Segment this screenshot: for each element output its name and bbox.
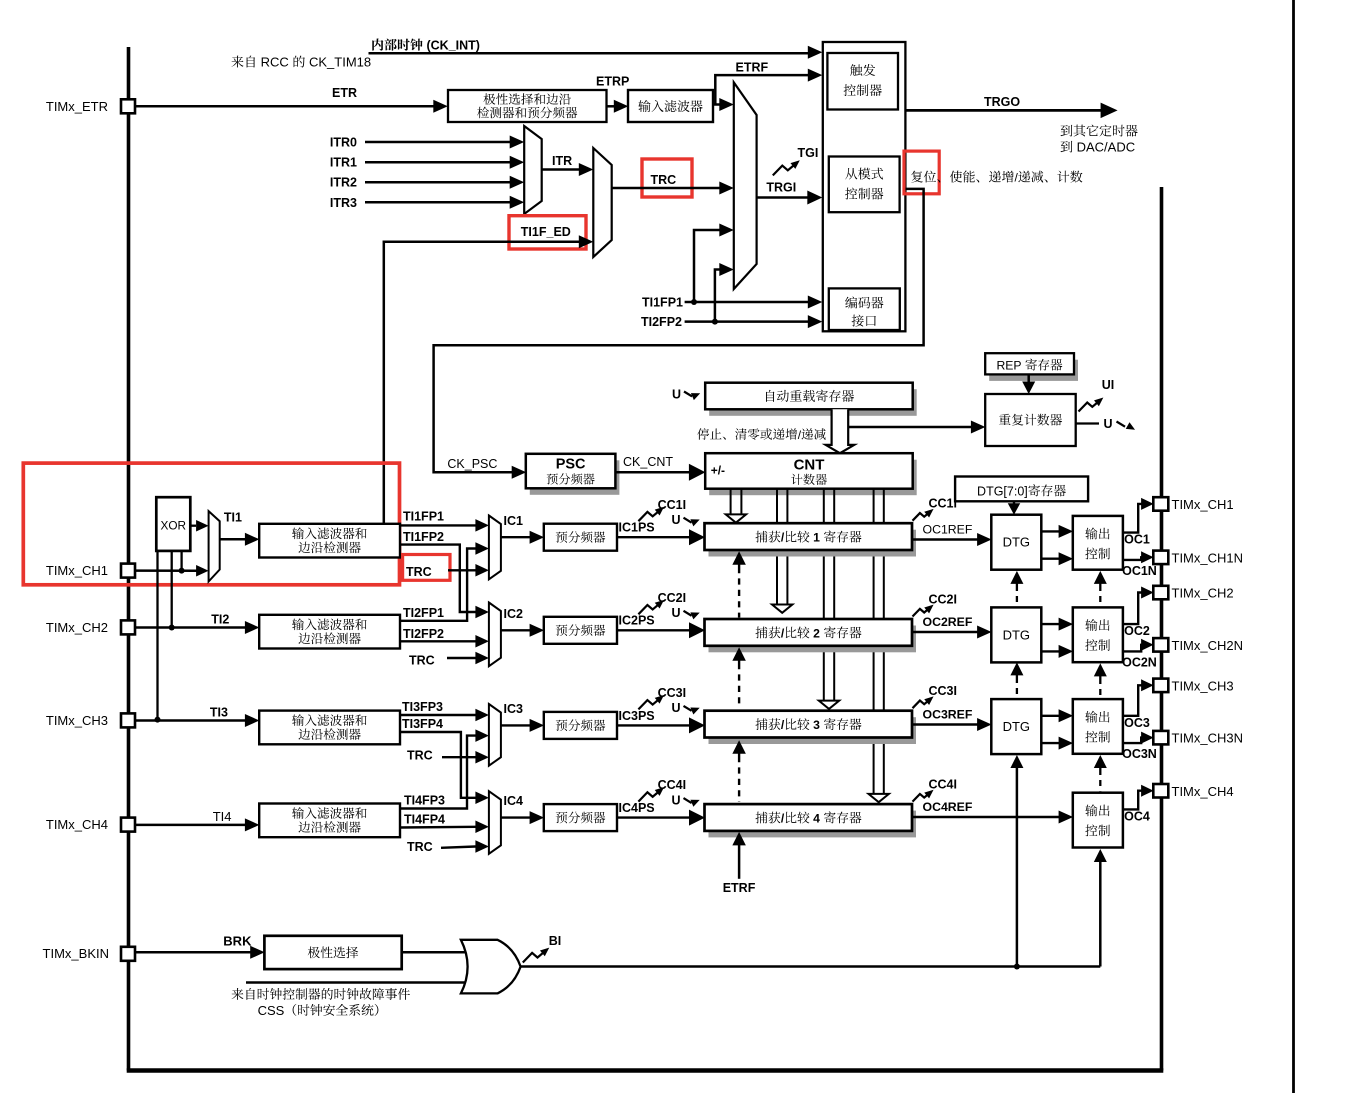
- wire TI4: [135, 818, 259, 831]
- label OC4: [1124, 809, 1150, 823]
- label UI: [1102, 378, 1115, 392]
- label CC2I right: [929, 593, 957, 607]
- label U ch2: [672, 606, 681, 620]
- mux IC1 select: [489, 516, 501, 580]
- mux ITR select: [524, 126, 542, 214]
- label U ch1: [672, 513, 681, 527]
- label ITR3: [330, 196, 357, 210]
- box output control ch1: [1073, 516, 1123, 570]
- mux TI1 select: [209, 511, 220, 581]
- label CC3I right: [929, 684, 957, 698]
- wire U repetition: [1076, 422, 1099, 424]
- box input filter edge detector ch4: [259, 804, 400, 838]
- port TIMx_CH3 label: [46, 713, 108, 728]
- svg-text:TI2FP2: TI2FP2: [641, 315, 682, 329]
- event arrow CC4I right: [913, 790, 934, 802]
- wire CK_INT: [369, 46, 823, 59]
- port TIMx_CH2 label: [1172, 586, 1234, 601]
- svg-text:4: 4: [810, 811, 824, 825]
- wire DTG to output control ch1 upper: [1041, 525, 1073, 538]
- port TIMx_CH3 pad: [121, 713, 135, 727]
- event arrow CC1I left: [638, 507, 664, 521]
- label TI3: [210, 706, 228, 720]
- port TIMx_BKIN label: [43, 946, 109, 961]
- wire OC4REF to output control 4: [912, 811, 1073, 824]
- label OC3N: [1122, 747, 1157, 761]
- wire IC4PS: [617, 810, 705, 826]
- wire TI1FP1 branch to mux: [694, 224, 734, 303]
- box CNT counter: [705, 453, 917, 495]
- svg-text:U: U: [672, 606, 681, 620]
- svg-text:TRC: TRC: [407, 840, 433, 854]
- wire OC3 output: [1123, 679, 1154, 716]
- svg-text:ETRP: ETRP: [596, 75, 629, 89]
- svg-text:TI3: TI3: [210, 706, 228, 720]
- svg-text:DTG: DTG: [1003, 719, 1030, 734]
- mux trigger TRGI: [734, 82, 757, 289]
- port TIMx_CH1N label: [1172, 550, 1244, 565]
- label TRC ch: [409, 654, 435, 668]
- label ITR0: [330, 136, 357, 150]
- label IC4PS: [619, 801, 655, 815]
- mux TRC select: [593, 148, 611, 257]
- label TI1: [224, 511, 242, 525]
- box PSC prescaler: [526, 454, 620, 495]
- event arrow CC2I right: [913, 605, 934, 617]
- port TIMx_CH2N label: [1172, 638, 1244, 653]
- wire capture chain dashed up arrow: [732, 740, 746, 802]
- svg-text:CC4I: CC4I: [929, 778, 957, 792]
- label CC3I left: [658, 686, 686, 700]
- wire break rail: [521, 965, 1101, 968]
- port TIMx_CH1 pad: [1153, 497, 1168, 511]
- box encoder interface: [829, 288, 900, 330]
- svg-text:XOR: XOR: [161, 519, 187, 533]
- svg-text:TRC: TRC: [407, 749, 433, 763]
- wire DTG to output control ch3 upper: [1041, 709, 1073, 722]
- svg-text:ITR3: ITR3: [330, 196, 357, 210]
- svg-text:CK_CNT: CK_CNT: [623, 455, 673, 469]
- svg-text:TI4FP3: TI4FP3: [404, 794, 445, 808]
- label IC3PS: [619, 709, 655, 723]
- mux IC4 select: [489, 791, 501, 854]
- wire IC2PS: [617, 622, 705, 638]
- svg-text:TI2: TI2: [211, 613, 229, 627]
- port TIMx_CH2N pad: [1153, 638, 1168, 652]
- wire TRGO: [905, 103, 1117, 119]
- box output control ch2: [1073, 607, 1123, 662]
- label U reload: [672, 388, 681, 402]
- wire TI1FP1: [400, 519, 489, 532]
- mux IC3 select: [489, 704, 501, 766]
- label IC3: [504, 702, 524, 716]
- box prescaler IC2: [544, 617, 617, 644]
- svg-text:OC2: OC2: [1124, 624, 1150, 638]
- label CC4I left: [658, 778, 686, 792]
- port TIMx_CH4 label: [46, 817, 108, 832]
- wire XOR input from CH2: [169, 551, 175, 631]
- svg-text:OC2REF: OC2REF: [923, 615, 973, 629]
- label TI4FP4 ch: [404, 813, 445, 827]
- label TI4FP3 ch: [404, 794, 445, 808]
- svg-text:TI2FP2: TI2FP2: [403, 627, 444, 641]
- box input filter ETR: [628, 90, 713, 122]
- port TIMx_CH1N pad: [1153, 551, 1168, 565]
- label capture compare 2 text: [755, 626, 861, 640]
- wire bottom border: [127, 1068, 1164, 1072]
- wire IC1PS: [617, 529, 705, 545]
- label ITR: [552, 154, 572, 168]
- svg-text:IC3: IC3: [504, 702, 524, 716]
- box DTG register: [955, 477, 1088, 502]
- svg-text:PSC: PSC: [556, 457, 586, 473]
- wire TRC: [447, 652, 489, 665]
- box REP register: [985, 353, 1078, 381]
- svg-text:(CK_INT): (CK_INT): [423, 39, 480, 53]
- wire filter to trigger mux: [713, 98, 734, 111]
- label TI1FP1 ch: [403, 510, 444, 524]
- label ITR1: [330, 156, 357, 170]
- svg-text:RCC: RCC: [257, 55, 292, 70]
- label BRK: [223, 933, 252, 948]
- hollow arrow CNT to capture1: [726, 489, 746, 523]
- box input filter edge detector ch2: [259, 615, 400, 649]
- wire TI3FP3: [400, 709, 489, 722]
- label ETR: [332, 86, 357, 100]
- label TI1F_ED: [521, 225, 571, 239]
- box slave mode controller: [829, 157, 900, 213]
- box DTG ch2: [991, 607, 1041, 662]
- label BI: [549, 934, 562, 948]
- box auto-reload register: [705, 383, 917, 416]
- svg-text:IC4PS: IC4PS: [619, 801, 655, 815]
- red highlight TI1F_ED: [509, 216, 586, 249]
- port TIMx_CH4 label: [1172, 784, 1234, 799]
- label ETRF: [736, 61, 769, 75]
- wire TI1FP1 to encoder: [685, 296, 823, 309]
- box DTG ch3: [991, 699, 1041, 754]
- wire TRC: [442, 751, 489, 764]
- svg-text:TIMx_CH4: TIMx_CH4: [46, 817, 108, 832]
- svg-text:OC1REF: OC1REF: [923, 523, 973, 537]
- wire CH1 to TI1 mux: [135, 565, 209, 577]
- svg-text:CK_PSC: CK_PSC: [447, 457, 497, 471]
- svg-text:BRK: BRK: [223, 933, 252, 948]
- port TIMx_ETR pad: [121, 99, 135, 113]
- svg-text:CC1I: CC1I: [929, 497, 957, 511]
- box output control ch4: [1073, 793, 1123, 848]
- hollow arrow ARR to CNT: [826, 409, 855, 453]
- red highlight reset: [904, 151, 939, 194]
- svg-text:OC3: OC3: [1124, 716, 1150, 730]
- svg-text:TI1FP1: TI1FP1: [642, 295, 683, 309]
- svg-text:TIMx_CH3: TIMx_CH3: [46, 713, 108, 728]
- svg-text:TIMx_CH1: TIMx_CH1: [1172, 497, 1234, 512]
- port TIMx_CH1 label: [1172, 497, 1234, 512]
- svg-text:ETRF: ETRF: [736, 61, 769, 75]
- label OC1REF: [923, 523, 973, 537]
- red highlight channel1 block: [23, 463, 399, 585]
- wire TI3FP4: [400, 732, 489, 804]
- wire CK_CNT: [615, 464, 705, 481]
- label capture compare 4 text: [755, 811, 861, 825]
- svg-text:OC3N: OC3N: [1122, 747, 1157, 761]
- port TIMx_CH1 label: [46, 563, 108, 578]
- label IC4: [504, 794, 524, 808]
- svg-text:ETRF: ETRF: [723, 881, 756, 895]
- event arrow CC1I right: [913, 509, 934, 521]
- svg-text:TRC: TRC: [409, 654, 435, 668]
- wire left-bus vertical: [127, 47, 131, 1071]
- box capture compare 2 register: [705, 619, 917, 652]
- wire reset from slave mode: [434, 189, 924, 479]
- label U repetition: [1104, 417, 1113, 431]
- label TI2FP2 encoder: [641, 315, 682, 329]
- gate OR break: [461, 940, 521, 994]
- event arrow BI: [523, 948, 549, 963]
- label TI1FP1 encoder: [642, 295, 683, 309]
- wire XOR input from CH3: [155, 551, 161, 723]
- port TIMx_CH4 pad: [1153, 784, 1168, 798]
- wire TI4FP4: [400, 821, 489, 834]
- svg-text:TIMx_CH3N: TIMx_CH3N: [1172, 731, 1244, 746]
- svg-text:ITR0: ITR0: [330, 136, 357, 150]
- wire IC4 to prescaler: [501, 811, 544, 824]
- svg-text:IC2: IC2: [504, 607, 524, 621]
- box prescaler IC1: [544, 524, 617, 551]
- box XOR: [156, 497, 190, 551]
- label capture compare 3 text: [755, 718, 861, 732]
- svg-text:TIMx_CH2N: TIMx_CH2N: [1172, 638, 1244, 653]
- svg-text:TIMx_CH4: TIMx_CH4: [1172, 784, 1234, 799]
- mux IC2 select: [489, 603, 501, 667]
- wire DTG register to DTG1: [1008, 501, 1021, 514]
- event arrow CC3I left: [638, 695, 664, 709]
- box prescaler IC4: [544, 804, 617, 831]
- port TIMx_CH3 pad: [1153, 679, 1168, 693]
- svg-text:OC2N: OC2N: [1122, 655, 1157, 669]
- svg-text:TI1FP1: TI1FP1: [403, 510, 444, 524]
- svg-text:TI1: TI1: [224, 511, 242, 525]
- event arrow CC3I right: [913, 696, 934, 708]
- port TIMx_CH3N pad: [1153, 731, 1168, 745]
- label TRGI: [766, 181, 796, 195]
- svg-text:REP: REP: [996, 359, 1024, 373]
- svg-text:IC2PS: IC2PS: [619, 614, 655, 628]
- svg-text:CK_TIM18: CK_TIM18: [305, 55, 371, 70]
- svg-text:TIMx_CH3: TIMx_CH3: [1172, 678, 1234, 693]
- box prescaler IC3: [544, 712, 617, 739]
- svg-text:TIMx_BKIN: TIMx_BKIN: [43, 946, 109, 961]
- hollow arrow CNT to capture4: [869, 489, 889, 803]
- label to other timers: [1061, 125, 1138, 137]
- label to DAC/ADC: [1061, 140, 1136, 155]
- wire output control chain ch3 dashed: [1094, 755, 1107, 791]
- box output control ch3: [1073, 699, 1123, 754]
- wire DTG to output control ch2 lower: [1041, 645, 1073, 658]
- label TRC main: [651, 173, 677, 187]
- page right border: [1292, 0, 1295, 1093]
- wire DTG to output control ch2 upper: [1041, 618, 1073, 631]
- wire ETR: [135, 100, 448, 113]
- svg-text:TIMx_CH1N: TIMx_CH1N: [1172, 550, 1244, 565]
- event arrow U ch1: [684, 518, 700, 527]
- svg-text:U: U: [672, 701, 681, 715]
- wire TRC: [441, 840, 489, 853]
- svg-text:OC4: OC4: [1124, 809, 1150, 823]
- wire capture chain dashed up arrow: [732, 647, 746, 708]
- event arrow U ch3: [684, 706, 700, 715]
- wire TI1F_ED: [384, 235, 594, 524]
- wire OC3N output: [1123, 732, 1154, 744]
- box repetition counter: [985, 394, 1075, 446]
- wire TRC to trigger mux: [612, 182, 734, 195]
- wire OC1 output: [1123, 498, 1154, 533]
- svg-text:CNT: CNT: [794, 457, 825, 474]
- wire IC2 to prescaler: [501, 624, 544, 637]
- wire ETRP: [607, 100, 629, 113]
- svg-text:3: 3: [810, 718, 824, 732]
- wire output control chain ch2 dashed: [1094, 663, 1107, 697]
- wire OC1N output: [1123, 551, 1154, 563]
- label TRC ch: [407, 840, 433, 854]
- box polarity selection edge detector prescaler: [448, 90, 607, 122]
- svg-text:TI1FP2: TI1FP2: [403, 530, 444, 544]
- wire OC2REF to DTG: [912, 626, 992, 639]
- wire TI1 mux to filter: [220, 533, 260, 546]
- svg-text:TRC: TRC: [406, 565, 432, 579]
- label IC2: [504, 607, 524, 621]
- event arrow U reload: [684, 392, 700, 401]
- wire right-bus vertical: [1160, 187, 1164, 1071]
- port TIMx_CH2 label: [46, 620, 108, 635]
- svg-text:CSS: CSS: [258, 1003, 285, 1018]
- wire TI4FP3: [400, 729, 489, 808]
- label OC4REF: [923, 800, 973, 814]
- wire TI2FP2: [400, 635, 489, 648]
- label TRC ch: [407, 749, 433, 763]
- wire IC1 to prescaler: [501, 531, 544, 544]
- label IC1: [504, 514, 524, 528]
- label OC2N: [1122, 655, 1157, 669]
- svg-text:UI: UI: [1102, 378, 1115, 392]
- svg-text:DTG: DTG: [1003, 627, 1030, 642]
- wire polarity to OR gate: [402, 951, 469, 954]
- svg-text:IC1: IC1: [504, 514, 524, 528]
- wire TRC: [448, 564, 489, 577]
- event arrow U ch2: [684, 611, 700, 620]
- hollow arrow CNT to capture3: [819, 489, 839, 709]
- wire ITR: [542, 163, 594, 176]
- label TGI: [798, 146, 819, 160]
- svg-text:TI3FP4: TI3FP4: [402, 717, 443, 731]
- wire OC2 output: [1123, 587, 1154, 625]
- label ITR2: [330, 176, 357, 190]
- svg-text:OC1: OC1: [1124, 533, 1150, 547]
- label stop clear updown: [697, 428, 825, 442]
- wire capture chain dashed up arrow: [732, 551, 746, 617]
- label CK_PSC: [447, 457, 497, 471]
- wire OC4 output: [1123, 785, 1154, 810]
- box DTG ch1: [991, 515, 1041, 570]
- red highlight TRC ch1: [403, 555, 450, 581]
- wire TI2: [135, 621, 259, 634]
- port TIMx_ETR label: [46, 99, 108, 114]
- label TI2FP2 ch: [403, 627, 444, 641]
- label TI2: [211, 613, 229, 627]
- event arrow CC4I left: [638, 787, 664, 801]
- wire update to repetition counter: [848, 421, 985, 434]
- svg-text:TGI: TGI: [798, 146, 819, 160]
- label OC1N: [1122, 564, 1157, 578]
- svg-text:TI2FP1: TI2FP1: [403, 606, 444, 620]
- label OC2REF: [923, 615, 973, 629]
- wire TI2FP2 branch to mux: [715, 263, 734, 322]
- box input filter edge detector ch3: [259, 711, 400, 745]
- svg-text:TIMx_CH1: TIMx_CH1: [46, 563, 108, 578]
- wire ITR3: [365, 196, 524, 209]
- svg-text:TIMx_CH2: TIMx_CH2: [1172, 586, 1234, 601]
- wire TRGI: [757, 191, 823, 205]
- port TIMx_BKIN pad: [121, 947, 135, 961]
- label TI4: [213, 809, 232, 824]
- box trigger outer: [823, 42, 906, 331]
- svg-text:2: 2: [810, 626, 824, 640]
- svg-text:TIMx_ETR: TIMx_ETR: [46, 99, 108, 114]
- label OC2: [1124, 624, 1150, 638]
- port TIMx_CH2 pad: [1153, 586, 1168, 600]
- svg-text:ITR: ITR: [552, 154, 572, 168]
- svg-text:U: U: [1104, 417, 1113, 431]
- event arrow UI: [1079, 398, 1104, 412]
- label from clock controller clock failure event: [232, 988, 410, 1000]
- label TI3FP3 ch: [402, 700, 443, 714]
- wire ITR0: [365, 136, 524, 149]
- label internal clock CK_INT: [372, 38, 480, 52]
- svg-text:TI1F_ED: TI1F_ED: [521, 225, 571, 239]
- svg-text:IC1PS: IC1PS: [619, 521, 655, 535]
- label CSS clock security system: [258, 1003, 379, 1018]
- label CC2I left: [658, 591, 686, 605]
- event arrow U ch4: [684, 798, 700, 807]
- svg-text:DTG[7:0]: DTG[7:0]: [977, 484, 1028, 498]
- hollow arrow CNT to capture2: [772, 489, 792, 613]
- box polarity selection BRK: [264, 936, 401, 969]
- wire IC3 to prescaler: [501, 719, 544, 732]
- svg-text:TI4FP4: TI4FP4: [404, 813, 445, 827]
- port TIMx_CH1 pad: [121, 564, 135, 578]
- wire IC3PS: [617, 717, 705, 733]
- label OC3REF: [923, 708, 973, 722]
- svg-text:BI: BI: [549, 934, 562, 948]
- wire DTG to output control ch3 lower: [1041, 737, 1073, 750]
- wire rail to output control 4 solid: [1094, 849, 1107, 967]
- svg-text:IC4: IC4: [504, 794, 524, 808]
- wire TI3: [135, 714, 259, 727]
- label ETRF bottom: [723, 881, 756, 895]
- svg-text:U: U: [672, 793, 681, 807]
- label TRC ch: [406, 565, 432, 579]
- wire TI1FP2: [400, 545, 489, 619]
- wire DTG chain ch2 dashed: [1010, 662, 1023, 697]
- svg-text:CC2I: CC2I: [929, 593, 957, 607]
- svg-text:OC3REF: OC3REF: [923, 708, 973, 722]
- label CC4I right: [929, 778, 957, 792]
- label TRGO: [984, 95, 1020, 109]
- label from RCC CK_TIM18: [232, 55, 372, 70]
- svg-text:1: 1: [810, 531, 824, 545]
- label CK_CNT: [623, 455, 673, 469]
